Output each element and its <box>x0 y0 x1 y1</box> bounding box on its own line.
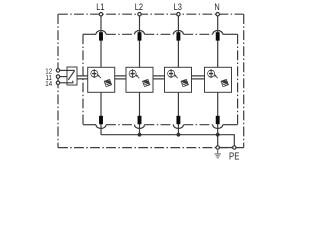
svg-text:L2: L2 <box>135 1 144 12</box>
changeover contact fixed lead 14 (hook) <box>67 81 73 83</box>
inner enclosure top edge right segment <box>223 33 238 35</box>
wire module 3 bottom conductor to PE bus <box>177 92 179 134</box>
terminal clamp L1 bottom (black) <box>99 116 103 124</box>
SPD module 2 box <box>126 67 153 92</box>
inner enclosure bottom edge (dash-dot) <box>106 124 213 126</box>
inner enclosure top edge wire hops <box>96 31 223 35</box>
bus junction <box>216 133 220 137</box>
wire module 4 bottom conductor to PE bus <box>217 92 219 134</box>
inner enclosure bottom edge wire hops <box>96 125 223 129</box>
terminal 14 (open circle) <box>56 81 59 84</box>
wire L1 conductor down to module <box>100 16 102 67</box>
inner enclosure bottom edge left segment <box>83 124 96 126</box>
svg-text:N: N <box>214 1 219 12</box>
wire module 2 bottom conductor to PE bus <box>139 92 141 134</box>
wire earth terminal to PE terminal <box>220 147 233 149</box>
wire terminal 12 to contact box <box>60 69 67 71</box>
mechanical linkage (double line) <box>192 76 205 79</box>
svg-text:14: 14 <box>45 81 52 89</box>
mechanical linkage (double line) <box>153 76 165 79</box>
terminal clamp L1 top (black) <box>99 32 103 40</box>
terminal clamp L2 bottom (black) <box>138 116 142 124</box>
module 4 actuation arrow <box>214 74 218 78</box>
bus junction <box>138 133 142 137</box>
module 3 thermal disconnector symbol <box>168 69 175 78</box>
wire terminal 11 to contact box <box>60 76 67 78</box>
remote signalling changeover contact box S1 <box>67 67 77 85</box>
terminal L2 (open circle) <box>138 13 141 16</box>
terminal clamp L3 bottom (black) <box>176 116 180 124</box>
wire L3 conductor down to module <box>177 16 179 67</box>
inner enclosure top edge left segment <box>83 33 96 35</box>
terminal N (open circle) <box>216 13 219 16</box>
changeover contact fixed lead 12 <box>67 69 75 71</box>
module 2 varistor (hatched square) <box>142 79 149 86</box>
svg-text:L1: L1 <box>96 1 105 12</box>
wire L2 conductor down to module <box>139 16 141 67</box>
SPD module 4 box <box>205 67 232 92</box>
module 4 varistor (hatched square) <box>221 79 228 86</box>
device outer boundary right edge (dash-dot) <box>243 14 245 147</box>
wire module 1 bottom conductor to PE bus <box>100 92 102 134</box>
device outer boundary left edge (dash-dot) <box>57 14 59 147</box>
terminal 11 (open circle) <box>56 75 59 78</box>
module 1 actuation arrow <box>97 74 101 78</box>
terminal clamp L3 top (black) <box>176 32 180 40</box>
inner enclosure right edge (dash-dot) <box>237 34 239 124</box>
device outer boundary bottom edge (dash-dot) <box>58 147 244 149</box>
PE terminal (open circle) <box>233 146 236 149</box>
inner enclosure left edge (dash-dot) <box>82 34 84 124</box>
wire terminal 14 to contact box <box>60 82 67 84</box>
mechanical linkage (double line) <box>115 76 126 79</box>
terminal L1 (open circle) <box>99 13 102 16</box>
SPD module 1 box <box>88 67 115 92</box>
module 2 thermal disconnector symbol <box>129 69 136 78</box>
inner enclosure top edge (dash-dot) <box>106 33 213 35</box>
bus junction <box>177 133 181 137</box>
module 2 actuation arrow <box>136 74 140 78</box>
changeover contact moving arm <box>68 71 74 80</box>
module 1 varistor (hatched square) <box>104 79 111 86</box>
earth terminal (open circle) <box>216 146 219 149</box>
wire bus to earth terminal <box>217 135 219 146</box>
module 3 actuation arrow <box>174 74 178 78</box>
terminal clamp N top (black) <box>216 32 220 40</box>
svg-text:L3: L3 <box>174 1 183 12</box>
terminal clamp L2 top (black) <box>138 32 142 40</box>
earth ground symbol <box>215 149 221 157</box>
svg-text:PE: PE <box>229 150 239 161</box>
terminal clamp N bottom (black) <box>216 116 220 124</box>
mechanical linkage (double line) <box>77 76 88 79</box>
terminal 12 (open circle) <box>56 69 59 72</box>
SPD module 3 box <box>165 67 192 92</box>
module 4 thermal disconnector symbol <box>208 69 215 78</box>
inner enclosure bottom edge right segment <box>223 124 238 126</box>
terminal L3 (open circle) <box>177 13 180 16</box>
module 3 varistor (hatched square) <box>181 79 188 86</box>
module 1 thermal disconnector symbol <box>91 69 98 78</box>
device outer boundary top edge (dash-dot) <box>58 13 244 15</box>
wire N conductor down to module <box>217 16 219 67</box>
PE bus wire <box>101 135 234 146</box>
